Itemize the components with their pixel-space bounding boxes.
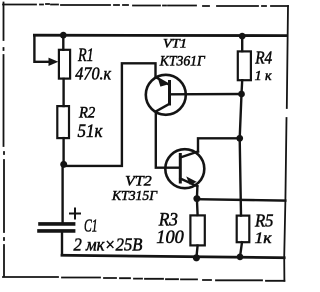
svg-text:КТ361Г: КТ361Г bbox=[159, 53, 206, 69]
svg-text:2 мк×25В: 2 мк×25В bbox=[74, 235, 143, 255]
resistor R1 470к bbox=[59, 35, 70, 78]
svg-text:С1: С1 bbox=[84, 216, 98, 236]
svg-text:51к: 51к bbox=[78, 122, 103, 142]
transistor VT1 КТ361Г bbox=[146, 75, 186, 115]
node junction top rail / R4 bbox=[239, 33, 246, 40]
svg-text:100: 100 bbox=[156, 227, 184, 248]
svg-text:1к: 1к bbox=[255, 230, 273, 247]
node A junction (R2 / C1 / wire to VT1 emitter) bbox=[60, 161, 67, 168]
wire VT2 emitter down to node E bbox=[196, 186, 199, 198]
capacitor C1 top lead bbox=[61, 164, 63, 222]
node junction top rail / R1 bbox=[60, 32, 67, 39]
wire bottom ground rail bbox=[62, 255, 284, 257]
svg-text:R2: R2 bbox=[78, 105, 95, 122]
wire node A to VT1 emitter bbox=[64, 63, 156, 166]
wire R1 bottom to R2 top bbox=[62, 79, 64, 107]
resistor R2 51к bbox=[57, 106, 69, 138]
node junction R5 / ground rail bbox=[237, 254, 244, 261]
wire VT2 collector up to node C bbox=[198, 138, 240, 151]
wire R1 wiper arm to top rail bbox=[34, 35, 50, 62]
resistor R3 100 bbox=[190, 199, 204, 258]
capacitor C1 polarity plus bbox=[70, 209, 80, 219]
wire R2 bottom to node A bbox=[62, 138, 64, 164]
capacitor C1 bottom lead bbox=[61, 231, 63, 255]
wire top supply rail bbox=[34, 34, 286, 37]
svg-text:R4: R4 bbox=[254, 48, 272, 68]
svg-text:470.к: 470.к bbox=[75, 64, 111, 84]
svg-text:КТ315Г: КТ315Г bbox=[111, 189, 158, 204]
svg-text:1 к: 1 к bbox=[255, 68, 273, 83]
wire node B to node C to R5 top bbox=[240, 94, 242, 216]
wire VT1 collector to VT2 base bbox=[156, 112, 180, 168]
svg-text:R5: R5 bbox=[254, 211, 273, 231]
node E junction (VT2 emitter / R3 / output wire) bbox=[193, 195, 200, 202]
capacitor C1 plates bbox=[40, 222, 74, 226]
node junction R3 / ground rail bbox=[193, 254, 200, 261]
resistor R4 1к bbox=[238, 36, 251, 94]
transistor VT2 КТ315Г bbox=[165, 149, 204, 188]
resistor R1 wiper arrow bbox=[49, 58, 59, 66]
node B junction (R4 bottom / VT1 base) bbox=[238, 91, 245, 98]
svg-text:VT1: VT1 bbox=[163, 36, 187, 51]
svg-text:VT2: VT2 bbox=[125, 173, 152, 189]
resistor R5 1к bbox=[237, 216, 250, 257]
wire node E to right edge bbox=[197, 199, 286, 200]
wire VT1 base to R4 bottom node bbox=[171, 93, 242, 96]
node C junction (VT2 collector / R4-R5 wire) bbox=[236, 135, 243, 142]
